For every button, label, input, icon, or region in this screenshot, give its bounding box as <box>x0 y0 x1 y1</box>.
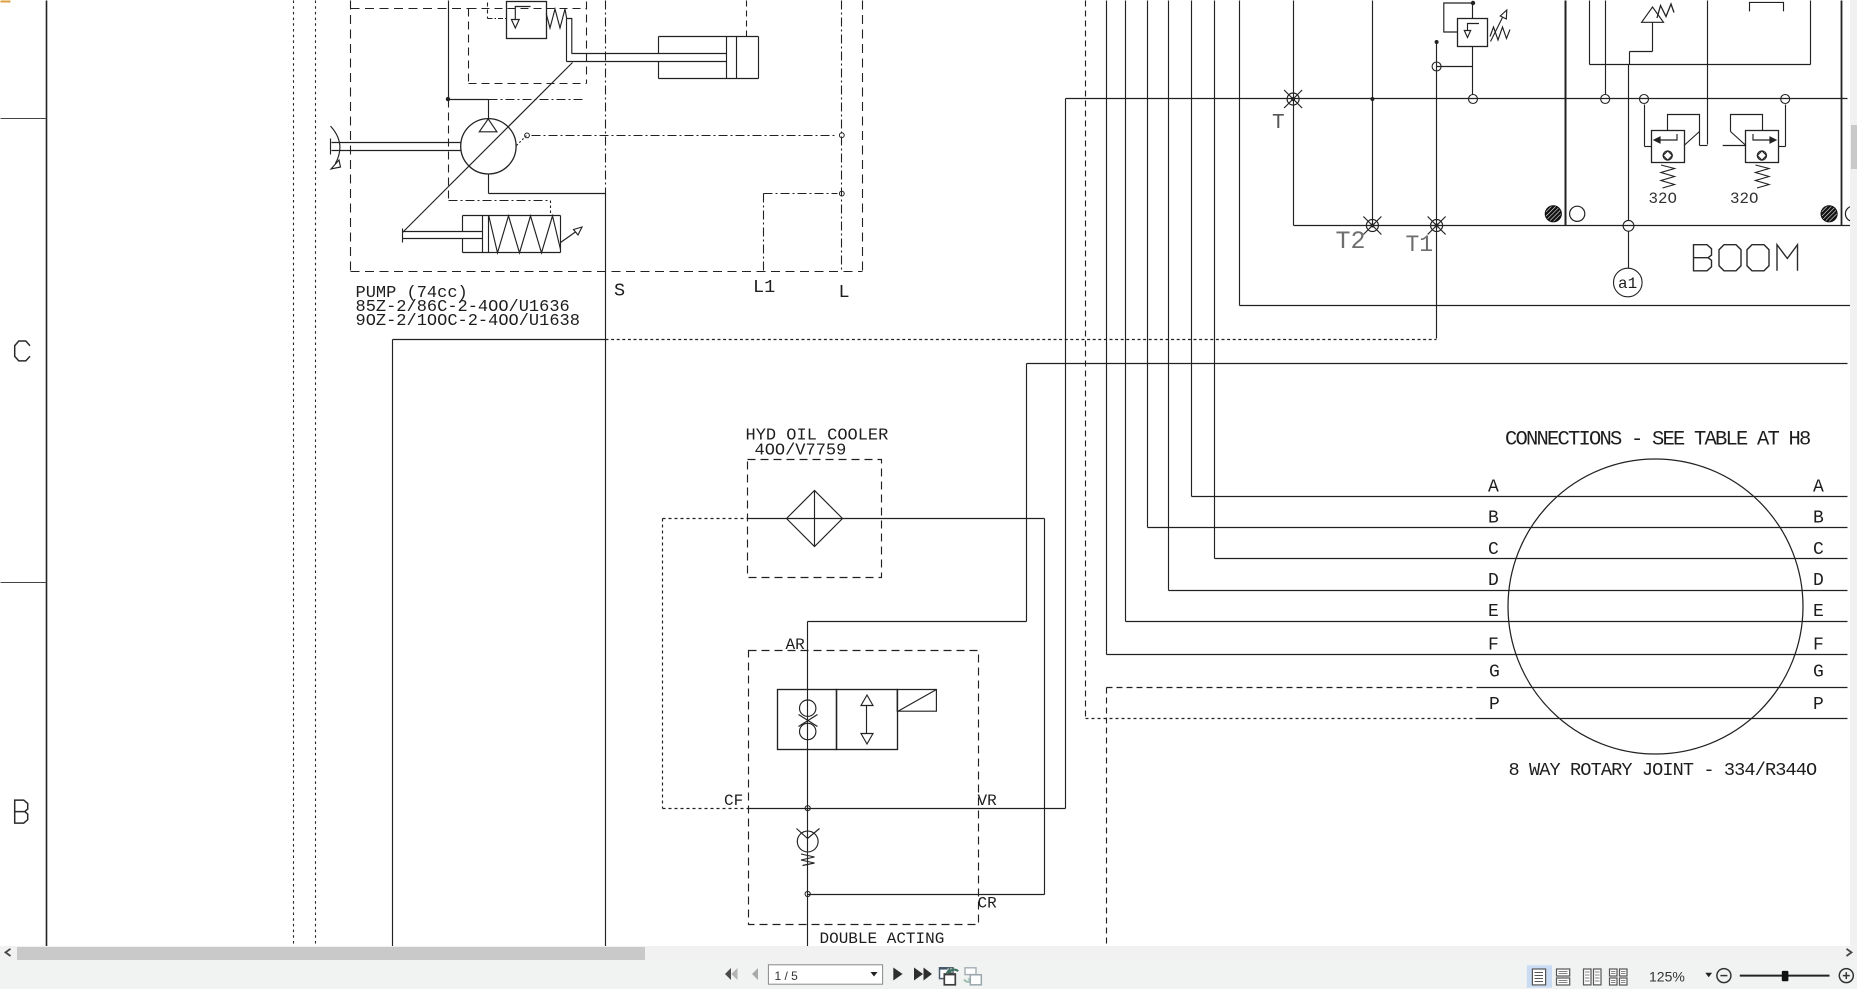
svg-text:32O: 32O <box>1730 190 1758 208</box>
svg-text:P: P <box>1813 695 1824 715</box>
svg-text:CR: CR <box>978 895 998 913</box>
svg-text:C: C <box>1488 540 1499 560</box>
svg-text:T1: T1 <box>1406 232 1434 258</box>
svg-text:125%: 125% <box>1649 968 1685 984</box>
svg-text:G: G <box>1813 663 1824 683</box>
svg-text:G: G <box>1489 663 1500 683</box>
svg-text:F: F <box>1488 636 1499 656</box>
svg-text:CONNECTIONS - SEE TABLE AT H8: CONNECTIONS - SEE TABLE AT H8 <box>1505 429 1810 452</box>
svg-text:T2: T2 <box>1336 227 1366 256</box>
svg-text:VR: VR <box>978 792 998 810</box>
svg-text:B: B <box>1813 509 1824 529</box>
svg-text:S: S <box>614 281 625 302</box>
svg-text:T: T <box>1272 112 1285 135</box>
svg-text:D: D <box>1813 571 1824 591</box>
svg-text:A: A <box>1488 478 1499 498</box>
svg-text:CF: CF <box>724 792 743 810</box>
svg-text:B: B <box>1488 509 1499 529</box>
svg-text:32O: 32O <box>1649 190 1677 208</box>
svg-text:9OZ-2/1OOC-2-4OO/U1638: 9OZ-2/1OOC-2-4OO/U1638 <box>356 312 580 331</box>
svg-text:AR: AR <box>786 636 806 654</box>
svg-text:D: D <box>1488 571 1499 591</box>
svg-text:a1: a1 <box>1618 275 1637 293</box>
svg-text:L1: L1 <box>753 277 775 298</box>
svg-text:1 / 5: 1 / 5 <box>775 969 799 983</box>
svg-text:P: P <box>1489 695 1500 715</box>
svg-text:A: A <box>1813 478 1824 498</box>
svg-text:C: C <box>1813 540 1824 560</box>
svg-text:E: E <box>1813 602 1824 622</box>
svg-text:E: E <box>1488 602 1499 622</box>
svg-text:L: L <box>839 282 850 303</box>
svg-text:4OO/V7759: 4OO/V7759 <box>755 441 847 460</box>
svg-text:F: F <box>1813 636 1824 656</box>
svg-text:8 WAY ROTARY JOINT - 334/R344O: 8 WAY ROTARY JOINT - 334/R344O <box>1509 760 1817 781</box>
